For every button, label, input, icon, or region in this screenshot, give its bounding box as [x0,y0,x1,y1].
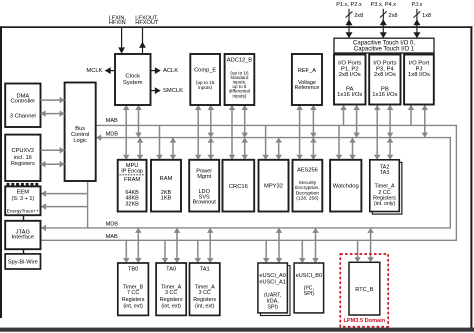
wire TA2 to MDB [387,138,394,160]
svg-text:SMCLK: SMCLK [163,88,183,94]
svg-text:MAB: MAB [106,234,118,240]
svg-text:TA3: TA3 [380,170,390,176]
svg-text:SPI): SPI) [304,291,315,297]
block Timer TA2 TA3 [370,160,402,214]
clock output SMCLK [151,87,161,94]
wire ADC12/CRC16 column left [229,105,236,160]
svg-text:1x16 I/Os: 1x16 I/Os [337,92,362,98]
svg-text:EEM: EEM [17,189,30,195]
svg-text:TB0: TB0 [128,266,138,272]
svg-text:1x8: 1x8 [422,13,431,19]
block RAM [151,160,181,212]
svg-text:1x8 I/Os: 1x8 I/Os [408,72,430,78]
svg-text:IP Encap: IP Encap [121,169,143,175]
wire TA0 to MDB [174,228,181,263]
wire MPY32 to MDB [275,138,282,160]
svg-text:3 Channel: 3 Channel [10,114,36,120]
block Clock System [115,54,151,105]
block REF_A [292,54,322,105]
wire eUSCI_B to MDB [312,228,319,263]
port pin arrow P3/P4 [380,9,387,38]
svg-text:MDB: MDB [106,222,119,228]
block IO Port PJ [404,55,434,105]
wire Clock/FRAM column left [123,105,130,160]
wire LFXOUT output arrow [139,28,146,54]
block ADC12_B [225,54,255,105]
wire DMA to BusControl [41,97,65,104]
block DMA Controller [5,84,40,128]
svg-text:2x8 I/Os: 2x8 I/Os [339,72,361,78]
svg-text:HFXOUT: HFXOUT [135,20,159,26]
package border bottom band [0,328,474,332]
svg-text:(int, ext): (int, ext) [161,304,181,310]
svg-text:LPM3.5 Domain: LPM3.5 Domain [343,318,385,324]
wire Clock to MDB [135,105,142,138]
svg-text:CRC16: CRC16 [229,184,248,190]
wire ADC12 to MDB [241,105,248,138]
wire port P3P4 to MDB [387,105,394,138]
block CPUXV2 [5,135,40,181]
wire CompE to MDB [208,105,215,138]
svg-text:TA0: TA0 [166,266,176,272]
wire TA1 to MDB [207,228,214,263]
block Timer TB0 [118,263,149,315]
wire eUSCI_B to MAB [299,240,306,263]
svg-text:inputs): inputs) [198,85,213,90]
wire REF_A/AES column left [296,105,303,160]
svg-text:incl. 16: incl. 16 [14,155,32,161]
wire TA1 to MAB [195,240,202,263]
wire RTC_B to MAB [354,240,361,262]
svg-text:eUSCI_A1: eUSCI_A1 [259,279,285,285]
svg-text:Encryption,: Encryption, [295,185,319,191]
svg-text:(int, ext): (int, ext) [123,304,143,310]
wire MPY32 to MAB [262,125,269,159]
wire REF_A to MDB [310,105,317,138]
svg-text:Capacitive Touch I/O 1: Capacitive Touch I/O 1 [354,46,415,52]
block MPU FRAM [118,160,147,212]
svg-text:CPUXV2: CPUXV2 [11,148,34,154]
wire to EEM upper [41,190,88,197]
svg-text:eUSCI_B0: eUSCI_B0 [296,273,322,279]
svg-text:Brownout: Brownout [193,200,217,206]
wire port PJ to MAB [408,105,415,125]
package border top [0,26,472,28]
svg-text:(int. only): (int. only) [374,201,396,207]
port pin arrow P1/P2 [346,9,353,38]
block eUSCI_A0 A1 [258,263,290,316]
svg-text:MAB: MAB [106,118,118,124]
svg-text:7 CC: 7 CC [127,290,139,296]
wire Watchdog to MDB [349,138,356,160]
wire TB0 to MDB [135,228,142,263]
block Spy-Bi-Wire [5,254,40,269]
wire port P1P2 to MAB [340,105,347,125]
svg-text:MCLK: MCLK [86,68,102,74]
block Power Mgmt [189,160,219,212]
svg-text:MDB: MDB [106,132,119,138]
svg-text:MPY32: MPY32 [264,183,283,189]
svg-text:AES256: AES256 [297,168,318,174]
wire CPU to BusControl [41,147,65,154]
svg-text:Comp_E: Comp_E [194,68,216,74]
wire JTAG to Spy-Bi-Wire [23,249,25,254]
block Watchdog [330,160,361,212]
wire RAM to MDB [170,138,177,160]
wire LFXIN input arrow [118,28,125,54]
wire CompE/PowerMgmt column left [195,105,202,160]
block JTAG Interface [5,221,40,249]
svg-text:P3.x, P4.x: P3.x, P4.x [371,2,397,8]
svg-text:Registers: Registers [193,297,216,303]
wire DMA-BusControl bidir [41,110,65,117]
svg-text:1KB: 1KB [161,196,172,202]
wire AES256 to MDB [310,138,317,160]
wire RAM to MAB [156,125,163,159]
svg-text:(128, 256): (128, 256) [296,196,319,202]
block IO Ports P3 P4 [369,55,400,105]
svg-text:RAM: RAM [160,176,173,182]
svg-text:SPI): SPI) [267,304,278,310]
wire eUSCI_A to MAB [263,240,270,263]
bus MDB top segment with arrowheads [41,134,450,231]
block Timer TA0 [156,263,186,315]
svg-text:Capacitive Touch I/O 0,: Capacitive Touch I/O 0, [353,40,415,46]
svg-text:FRAM: FRAM [124,177,140,183]
block IO Ports P1 P2 [334,55,366,105]
svg-text:1x16 I/Os: 1x16 I/Os [372,92,397,98]
block Capacitive Touch IO [334,38,434,53]
wire TA0 to MAB [162,240,169,263]
svg-text:2x8: 2x8 [354,13,363,19]
svg-text:Registers: Registers [160,297,183,303]
svg-text:P1.x, P2.x: P1.x, P2.x [336,2,362,8]
wire Watchdog to MAB [336,125,343,159]
wire FRAM to MDB [137,138,144,160]
wire port PJ to MDB [422,105,429,138]
block Comp_E [190,54,220,105]
wire eUSCI_A to MDB [276,228,283,263]
svg-text:Registers: Registers [122,297,145,303]
bus MAB top segment [41,125,457,240]
svg-text:Timer_A: Timer_A [374,184,395,190]
block RTC_B [349,262,380,315]
svg-text:2x8 I/Os: 2x8 I/Os [374,72,396,78]
wire bus-control to EEM vertical [87,181,89,228]
wire port P3P4/TA2 column left [374,105,381,160]
svg-text:Decryption: Decryption [296,190,320,196]
block AES256 [293,160,323,212]
package border right [470,26,472,331]
svg-text:HFXIN: HFXIN [109,20,126,26]
svg-text:32KB: 32KB [125,201,139,207]
svg-text:3 CC: 3 CC [199,290,211,296]
svg-text:inputs): inputs) [233,93,247,98]
svg-text:Controller: Controller [11,99,36,105]
svg-text:Reference: Reference [295,85,320,91]
svg-text:Spy-Bi-Wire: Spy-Bi-Wire [8,259,38,265]
clock output MCLK [105,67,115,74]
svg-text:Logic: Logic [73,138,87,144]
wire to EEM lower (EnergyTrace) [41,203,88,210]
block eUSCI_B0 [294,263,324,313]
svg-text:Clock: Clock [125,74,140,80]
wire CPU-BusControl bidir [41,161,65,168]
svg-text:eUSCI_A0: eUSCI_A0 [259,273,285,279]
block Bus Control Logic [65,83,96,182]
svg-text:TA1: TA1 [200,266,210,272]
svg-text:(int, ext): (int, ext) [195,304,215,310]
block MPY32 [259,160,289,212]
svg-text:Watchdog: Watchdog [333,183,359,189]
LPM3.5 domain dashed boundary [340,254,388,327]
svg-text:3 CC: 3 CC [165,290,177,296]
wire port P1P2 to MDB [353,105,360,138]
svg-text:Security: Security [299,180,317,186]
block Timer TA1 [190,263,220,315]
svg-text:REF_A: REF_A [298,68,317,74]
wire EEM to JTAG [23,215,25,221]
svg-text:(S: 3 + 1): (S: 3 + 1) [11,196,34,202]
svg-text:Interface: Interface [12,235,35,241]
svg-text:Mgmt: Mgmt [197,174,211,180]
wire CRC16 to MDB [241,138,248,160]
package border left [0,26,2,318]
block EEM [5,186,40,215]
svg-text:Registers: Registers [11,161,35,167]
clock output ACLK [151,67,161,74]
port pin arrow PJ [413,9,420,38]
wire PowerMgmt to MDB [208,138,215,160]
cpu-eem dashed link [7,183,40,186]
svg-text:ADC12_B: ADC12_B [227,58,252,64]
svg-text:PJ.x: PJ.x [411,2,422,8]
svg-text:2x8: 2x8 [389,13,398,19]
wire TB0 to MAB [123,240,130,263]
svg-text:System: System [123,80,143,86]
block CRC16 [223,160,255,212]
wire RTC_B to MDB [367,228,374,262]
svg-text:RTC_B: RTC_B [355,287,374,293]
svg-text:ACLK: ACLK [163,68,178,74]
svg-text:EnergyTrace++: EnergyTrace++ [7,209,39,214]
